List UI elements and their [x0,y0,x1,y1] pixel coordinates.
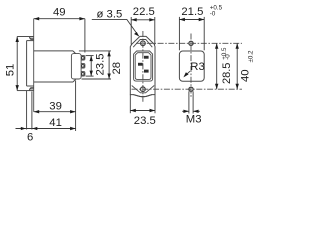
arrow 49 left [34,17,40,20]
mounting hole bottom [141,87,146,92]
svg-text:41: 41 [49,117,62,129]
arrow 28.5 bottom [215,84,218,90]
svg-text:-0: -0 [225,54,232,60]
M3 ext left [188,91,190,113]
arrow 6 right (points left) [32,127,37,130]
flange top tab [29,37,31,40]
svg-text:6: 6 [27,131,33,143]
vertical centerline right view [190,34,192,98]
svg-text:±0.2: ±0.2 [247,50,254,63]
dim 21.5 right ext [203,17,205,50]
arrow 49 right [79,17,85,20]
dim 23.5 extension top [86,55,94,57]
dim 40 line [236,43,238,89]
dim 51 line [16,37,18,91]
svg-text:28: 28 [111,62,123,75]
ext flange front down [26,91,28,130]
leader dia 3.5 [92,19,139,36]
mounting hole top [141,41,146,46]
arrow 6 left (points right) [21,127,26,130]
ext body right down [75,81,77,132]
recess inner [135,53,151,80]
body bottom edge [34,81,73,83]
arrow 40 top [236,43,239,49]
arrow 22.5 left [131,18,137,21]
arrow M3 right [193,110,199,113]
cutout rectangle [179,51,204,81]
dim 21.5 left ext [178,17,180,50]
recess outer [134,51,153,81]
arrow 41 right [70,127,76,130]
dim 21.5 line [179,19,204,21]
arrow leader 3.5 [134,32,139,36]
arrow 39 right [70,110,76,113]
arrow 22.5 right [149,18,155,21]
dim 28 extension top [79,50,111,52]
terminal pin 2 tab [81,64,85,69]
body top-right chamfer [73,51,76,54]
dim 41 line with 6 leader [16,128,76,130]
terminal pin 1 tab [81,56,85,61]
body bottom-right chamfer [73,79,76,82]
svg-text:-0: -0 [210,11,216,18]
dim 23.5 (front) left ext [129,95,131,114]
arrow 21.5 right [199,18,205,21]
svg-text:51: 51 [4,64,16,77]
dim 28 line [108,51,110,79]
arrow 39 left [34,110,40,113]
arrow 51 top [16,37,19,43]
arrow 23.5 front left [130,109,136,112]
M3 ext right [192,91,194,113]
svg-text:M3: M3 [186,113,202,125]
dim 49 right extension [84,19,86,53]
flange bottom tab [29,88,31,91]
dim 23.5 line [90,56,92,77]
dim 23.5 extension bottom [86,75,94,77]
dim 22.5 left ext [130,17,132,45]
svg-text:ø 3.5: ø 3.5 [97,8,123,20]
arrow 28 bottom [107,74,110,80]
dim 23.5 (front) right ext [154,95,156,114]
dim 28.5 line [216,43,218,89]
dim 22.5 line [131,19,155,21]
vertical centerline middle view [142,31,144,103]
svg-text:49: 49 [53,6,66,18]
dim 51 bottom extension [17,90,29,92]
flange front face [26,41,28,86]
dim 39 line [34,111,76,113]
M3 arrow leader right [193,110,200,112]
horizontal centerline top holes [136,42,242,44]
pin 2 eyelet [81,65,84,68]
pin N [144,70,149,73]
dim 51 top extension [17,36,29,38]
R3 leader [185,71,190,76]
pin E [138,63,143,66]
arrow 40 bottom [236,84,239,90]
terminal pin 3 tab [81,72,85,77]
dim 22.5 right ext [154,17,156,45]
arrow 28.5 top [215,43,218,49]
body top edge [34,50,73,52]
horizontal centerline bottom holes [132,88,243,90]
arrow 23.5 bottom [90,71,93,77]
dim 28 extension bottom [82,78,112,80]
inner roof line [133,40,152,48]
hole top right view [189,41,193,45]
arrow R3 [183,72,188,77]
ext flange rear down [31,92,33,130]
arrow 21.5 left [179,18,185,21]
flange bottom edge [27,85,34,87]
pin L [144,56,149,59]
svg-text:28.5: 28.5 [221,63,233,84]
dim 23.5 (front) line [130,110,155,112]
svg-text:23.5: 23.5 [95,54,107,76]
svg-text:21.5: 21.5 [181,6,203,18]
arrow 23.5 top [90,56,93,62]
pin 3 eyelet [81,73,84,76]
pin 1 eyelet [81,57,84,60]
arrow M3 left [183,110,189,113]
arrow 51 bottom [16,85,19,91]
bottom shallow V [134,95,152,97]
svg-text:39: 39 [49,101,62,113]
svg-text:40: 40 [240,69,252,82]
svg-text:R3: R3 [190,61,204,73]
dim 49 line [34,18,85,20]
M3 arrow leader left [182,110,189,112]
inner bottom chevron [132,86,155,93]
svg-text:22.5: 22.5 [133,6,155,18]
outer outline [130,36,155,96]
arrow 28 top [107,51,110,57]
flange back face (continuous with 49/39 extension) [33,19,35,112]
terminal block outline [71,54,81,79]
arrow 23.5 front right [150,109,156,112]
hole bottom right view [189,87,193,91]
flange top edge [27,40,34,42]
svg-text:23.5: 23.5 [134,115,156,127]
